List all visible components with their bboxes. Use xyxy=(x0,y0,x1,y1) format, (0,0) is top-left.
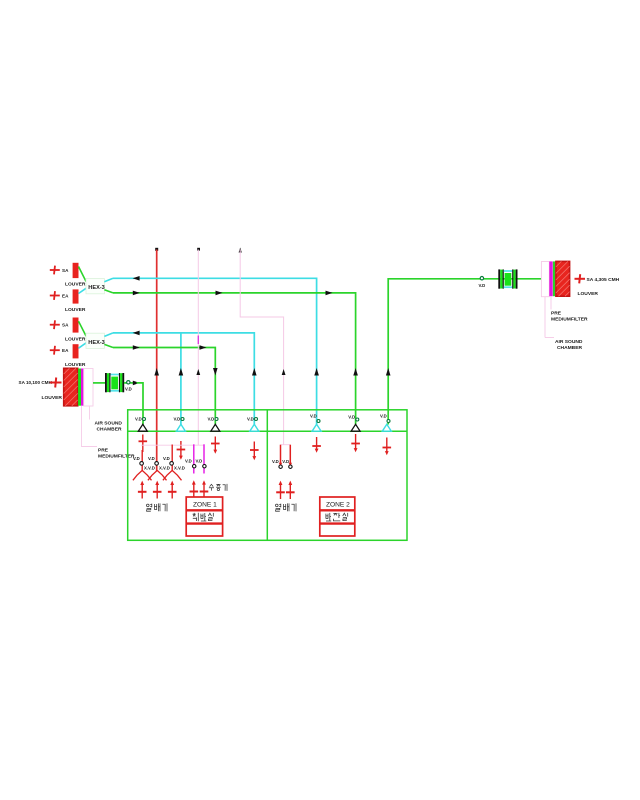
label V.D (steam 1) xyxy=(185,458,196,468)
leader: pink to AIR SOUND CHAMBER (right) xyxy=(544,297,546,338)
XVD group 2: label V.D xyxy=(148,456,170,481)
wire: red feed to XVD group1 xyxy=(141,450,143,471)
svg-text:V.D: V.D xyxy=(310,414,317,419)
wire: cyan return main 2 (horizontal + drop) xyxy=(113,333,254,425)
svg-text:ZONE 1: ZONE 1 xyxy=(193,502,217,509)
diffuser arrow-cross zone2 left xyxy=(276,481,285,499)
label 수증기 (steam) xyxy=(209,484,227,491)
louver L4 (EA set2) xyxy=(73,344,79,358)
wire: cyan louver L2 to HEX1 xyxy=(79,288,87,293)
zone divider wall xyxy=(266,410,268,541)
svg-text:EA: EA xyxy=(62,348,69,353)
svg-text:LOUVER: LOUVER xyxy=(65,282,86,288)
diffuser cross below VD6 xyxy=(351,434,360,449)
leader: pink to PRE MEDIUMFILTER text xyxy=(82,406,98,447)
wire: cyan return main 1 (horizontal + drop) xyxy=(113,278,317,424)
wire: cyan louver L4 to HEX2 xyxy=(79,343,87,348)
filter strip green (louver) xyxy=(78,369,81,406)
svg-text:LOUVER: LOUVER xyxy=(65,307,86,313)
diffuser cross below VD5 xyxy=(312,437,321,449)
svg-text:V.D: V.D xyxy=(174,417,181,422)
svg-text:CHAMBER: CHAMBER xyxy=(557,345,582,351)
diffuser cross below VD2 xyxy=(177,441,186,456)
diffuser cross below VD3 xyxy=(211,437,220,451)
louver L5 (hatched supply louver) xyxy=(64,368,78,406)
diffuser plus (right louver) xyxy=(575,274,586,283)
svg-text:ZONE 2: ZONE 2 xyxy=(326,502,350,509)
damper VD5 (cyan, zone2) xyxy=(310,414,321,432)
wire: cyan branch drop (x181 from cyan main 2) xyxy=(180,333,182,425)
diffuser plus SA2 xyxy=(50,320,60,329)
filter strip green (right) xyxy=(553,261,555,296)
heat exchanger HEX-3 (unit 2) xyxy=(86,333,105,348)
leader: pink to AIR SOUND CHAMBER text xyxy=(89,406,91,420)
svg-text:V.D: V.D xyxy=(247,417,254,422)
svg-text:AIR SOUND: AIR SOUND xyxy=(95,421,123,427)
zone plenum line (second horizontal) xyxy=(128,430,407,432)
svg-text:SA: SA xyxy=(62,268,69,273)
diffuser arrow-cross below steam 2 xyxy=(200,480,209,498)
svg-text:PRE: PRE xyxy=(98,448,109,454)
wire: pink tee in zone2 xyxy=(281,444,291,446)
wire: green supply from louver to filter xyxy=(93,382,105,384)
svg-text:AIR SOUND: AIR SOUND xyxy=(555,339,583,345)
svg-text:MEDIUMFILTER: MEDIUMFILTER xyxy=(551,317,588,323)
diffuser arrow-cross zone2 right xyxy=(286,481,295,499)
damper VD6 (black, zone2) xyxy=(348,415,360,432)
svg-text:CHAMBER: CHAMBER xyxy=(97,427,122,433)
XVD group 1: label V.D xyxy=(133,456,155,481)
inline filter F2 (right AHU) xyxy=(498,269,517,288)
wire: green louver L1 to HEX1 xyxy=(79,267,87,282)
damper V.D circle (right AHU) xyxy=(480,277,483,280)
heat exchanger HEX-3 (unit 1) xyxy=(86,279,105,294)
diffuser arrow-cross below XVD3 xyxy=(168,481,177,499)
svg-text:V.D: V.D xyxy=(135,417,142,422)
svg-text:X.V.D: X.V.D xyxy=(159,466,170,471)
arrow: right on green main 1 (x135) xyxy=(133,291,140,296)
leader: pink to PRE MEDIUMFILTER (right) xyxy=(550,296,552,309)
air sound chamber outline (pink) xyxy=(84,369,93,407)
wire: pink drain 2 (top riser, jog, drop into zone2) xyxy=(240,250,283,445)
svg-text:LOUVER: LOUVER xyxy=(65,362,86,368)
svg-text:V.D: V.D xyxy=(380,414,387,419)
wire: cyan HEX1 exit diagonal xyxy=(104,278,113,282)
diffuser plus EA2 xyxy=(50,346,60,355)
wire: red drop zone2 left xyxy=(280,445,282,464)
label V.D (zone2 damper 1) xyxy=(272,459,282,469)
arrow: right on supply wire xyxy=(133,381,140,386)
wire: pink header in zone1 xyxy=(141,444,204,446)
diffuser plus SA1 xyxy=(50,266,60,275)
svg-text:X.V.D: X.V.D xyxy=(174,466,185,471)
diffuser arrow-cross below XVD1 xyxy=(138,481,147,499)
arrow: down on green drop x215 xyxy=(213,368,218,376)
wire: cyan HEX2 exit diagonal xyxy=(104,333,113,337)
wire: green HEX2 exit diagonal xyxy=(104,344,113,347)
svg-text:V.D: V.D xyxy=(272,459,279,464)
svg-text:SA 4,305 CMH: SA 4,305 CMH xyxy=(587,277,620,283)
damper V.D circle (supply) xyxy=(127,381,130,384)
damper VD7 (cyan, zone2) xyxy=(380,414,391,432)
node: red exhaust riser top dot xyxy=(155,248,158,251)
zone enclosure outer box xyxy=(128,410,407,541)
louver L2 (EA set1) xyxy=(73,289,79,303)
wire: green HEX1 exit diagonal xyxy=(104,290,113,293)
arrow: up on pink drain 2 xyxy=(282,369,286,375)
damper VD3 (black) xyxy=(208,417,220,432)
svg-text:V.D: V.D xyxy=(208,417,215,422)
arrow: left on cyan main 1 xyxy=(133,276,140,281)
wire: red drop zone2 right xyxy=(289,445,291,464)
diffuser plus (supply louver) xyxy=(50,378,62,388)
wire: green supply main right AHU (drop + horizontal) xyxy=(388,279,541,425)
diffuser cross below VD4 xyxy=(250,442,259,457)
wire: green supply main 2 (horizontal + drop) xyxy=(113,348,215,425)
svg-text:HEX-3: HEX-3 xyxy=(88,285,104,291)
svg-text:V.D: V.D xyxy=(282,459,289,464)
steam damper magenta line 2 xyxy=(203,444,205,473)
svg-text:LOUVER: LOUVER xyxy=(42,395,63,401)
arrow: up on green drop 1 xyxy=(353,368,358,376)
svg-text:V.D: V.D xyxy=(163,456,170,461)
svg-text:PRE: PRE xyxy=(551,311,562,317)
arrow: up on cyan drop 1 xyxy=(314,368,319,376)
arrow: right on green main 2 (x202) xyxy=(200,345,207,350)
filter strip magenta (pre/medium filter) xyxy=(81,369,84,406)
svg-text:SA 10,100 CMH: SA 10,100 CMH xyxy=(19,380,53,385)
label 열배기 (zone1 heat exhaust) xyxy=(147,503,168,511)
label V.D (zone2 damper 2) xyxy=(282,459,292,469)
svg-text:LOUVER: LOUVER xyxy=(578,291,599,297)
svg-text:V.D: V.D xyxy=(348,415,355,420)
XVD group 3: label V.D xyxy=(163,456,185,481)
arrow: left on cyan main 2 xyxy=(133,331,140,336)
svg-text:MEDIUMFILTER: MEDIUMFILTER xyxy=(98,454,135,460)
label V.D (steam 2) xyxy=(196,458,207,468)
arrow: right on green main 2 (x135) xyxy=(133,345,140,350)
inline filter F1 (supply) xyxy=(105,373,124,392)
svg-text:LOUVER: LOUVER xyxy=(65,336,86,342)
louver L3 (SA set2) xyxy=(73,318,79,333)
wire: magenta tick on drain 1 xyxy=(197,336,199,345)
wire: green supply main 1 (horizontal + drop) xyxy=(113,293,356,425)
wire: green louver L3 to HEX2 xyxy=(79,321,87,336)
arrow: up on cyan branch x181 xyxy=(179,368,184,376)
svg-text:V.D: V.D xyxy=(148,456,155,461)
wire: green filter to damper xyxy=(124,382,134,384)
room table ZONE 1 xyxy=(186,497,222,536)
damper VD1 (supply, black) xyxy=(135,417,147,432)
label 반전실 (zone2 room name) xyxy=(326,513,348,521)
svg-text:SA: SA xyxy=(62,323,69,328)
svg-text:HEX-3: HEX-3 xyxy=(88,340,104,346)
diffuser cross below VD7 xyxy=(383,438,392,452)
air sound chamber outline right (pink) xyxy=(541,262,549,297)
diffuser cross below VD1 xyxy=(139,435,148,453)
node: drain line 1 top dot xyxy=(197,248,200,251)
arrow: up on red riser xyxy=(154,368,159,376)
svg-text:EA: EA xyxy=(62,294,69,299)
steam damper magenta line 1 xyxy=(193,444,195,473)
wire: red exhaust riser (vertical) xyxy=(156,250,158,472)
wire: green supply to zone (turn down) xyxy=(137,383,144,425)
room table ZONE 2 xyxy=(320,497,355,536)
arrow: drain line 2 top (up) xyxy=(239,248,242,253)
diffuser arrow-cross below steam 1 xyxy=(190,480,199,498)
svg-text:V.D: V.D xyxy=(196,458,203,463)
diffuser plus EA1 xyxy=(50,291,60,300)
svg-text:V.D: V.D xyxy=(185,458,192,463)
arrow: right on green main 1 (x218) xyxy=(216,291,223,296)
svg-text:V.D: V.D xyxy=(133,456,140,461)
label 열배기 (zone2 heat exhaust) xyxy=(276,503,297,511)
svg-text:X.V.D: X.V.D xyxy=(144,466,155,471)
arrow: up on green drop right xyxy=(386,368,391,376)
diffuser arrow-cross below XVD2 xyxy=(153,481,162,499)
filter strip magenta (right) xyxy=(549,261,552,296)
damper VD2 (cyan) xyxy=(174,417,186,432)
svg-text:V.D: V.D xyxy=(125,387,132,392)
arrow: up on cyan drop 2 xyxy=(252,368,257,376)
svg-text:V.D: V.D xyxy=(479,283,486,288)
arrow: right on green main 1 (x328) xyxy=(326,291,333,296)
wire: pink drain 1 (vertical into zone1) xyxy=(197,250,199,446)
wire: red feed to XVD group3 xyxy=(171,445,173,471)
label 취반실 (zone1 room name) xyxy=(193,513,214,521)
louver L6 (hatched right louver) xyxy=(556,261,570,296)
arrow: up on pink drain 1 xyxy=(196,369,200,375)
damper VD4 (cyan) xyxy=(247,417,259,432)
louver L1 (SA set1) xyxy=(73,263,79,278)
